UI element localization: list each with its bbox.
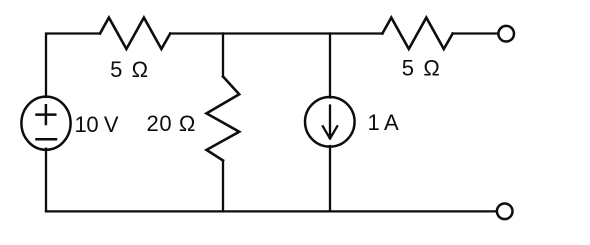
bottom rail wire [46, 210, 497, 212]
terminal a (open circle, top right) [498, 26, 514, 42]
resistor R3 20-ohm vertical zigzag [207, 77, 240, 161]
wire R2 to terminal a [453, 32, 499, 34]
svg-text:5 Ω: 5 Ω [402, 55, 442, 80]
V1 minus sign [37, 138, 57, 141]
wire middle branch top (top rail to R3) [222, 34, 224, 77]
wire left vertical bottom (V1 minus to bottom rail) [45, 149, 47, 212]
resistor R1 5-ohm zigzag (top left) [100, 18, 170, 49]
current source I1 circle [305, 97, 355, 147]
voltage source V1 circle [21, 97, 70, 150]
V1 plus sign [37, 105, 56, 124]
svg-text:5 Ω: 5 Ω [110, 57, 150, 82]
svg-text:10 V: 10 V [75, 112, 119, 137]
resistor R2 5-ohm zigzag (top right) [382, 18, 452, 49]
svg-text:20 Ω: 20 Ω [147, 111, 196, 136]
I1 arrow (pointing down) [323, 106, 337, 139]
wire left vertical top (node A to V1 plus) [46, 34, 100, 98]
wire top middle (R1 to R2 through nodes) [170, 32, 382, 34]
wire current-source branch top [329, 34, 331, 98]
svg-text:1 A: 1 A [368, 110, 400, 135]
wire current-source branch bottom [329, 146, 331, 211]
wire middle branch bottom (R3 to bottom rail) [222, 161, 224, 212]
terminal b (open circle, bottom right) [497, 204, 513, 220]
